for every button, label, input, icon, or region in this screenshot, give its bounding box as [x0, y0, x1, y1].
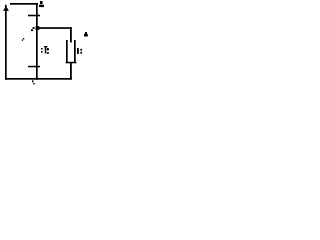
current label i dot (below bottom wire) — [33, 83, 34, 85]
resistor R2 box right edge — [74, 40, 76, 63]
label R2 colon — [80, 49, 82, 51]
resistor R2 box left edge — [66, 40, 68, 63]
wire middle vertical branch — [36, 3, 38, 80]
label R2 letter I — [77, 48, 79, 54]
current label i tick (below bottom wire) — [32, 80, 33, 82]
current source I1 arrowhead — [3, 6, 9, 11]
wire top horizontal — [10, 3, 38, 5]
label R1 letter R — [44, 46, 47, 47]
wire right vertical upper — [70, 27, 72, 42]
annotation double dot lower (left loop) — [22, 40, 23, 41]
annotation double dot upper (left loop) — [23, 38, 24, 39]
resistor R1 top plate bar — [28, 15, 40, 17]
wire bottom horizontal — [5, 78, 72, 80]
wire middle horizontal — [38, 27, 72, 29]
node b label symbol (right) — [85, 32, 87, 34]
resistor R2 box bottom edge — [66, 62, 77, 64]
current source I1 arrow shaft (left branch) — [5, 5, 7, 80]
current label dash near junction — [33, 27, 35, 29]
wire right vertical lower — [70, 63, 72, 80]
node a label symbol (top) — [40, 1, 43, 4]
junction node dot — [36, 26, 40, 30]
label R1 colon — [41, 48, 43, 50]
current label dot near junction — [31, 29, 33, 31]
resistor R1 bottom plate bar — [28, 66, 40, 68]
